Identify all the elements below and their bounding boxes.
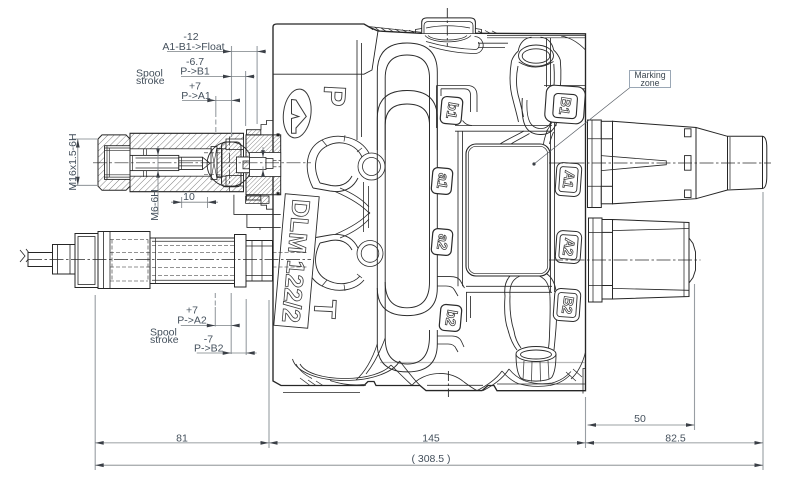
dim308.5 arrows [95, 463, 104, 467]
svg-text:stroke: stroke [136, 75, 165, 87]
row2 arrows [223, 75, 232, 79]
wire top face ledge [487, 36, 585, 38]
wire top cap on body [422, 18, 476, 33]
body staircase below collar [234, 195, 281, 230]
wire B1 recess shelf [544, 86, 585, 89]
spool drill point [203, 157, 211, 169]
inner line [729, 137, 731, 189]
svg-text:T: T [307, 299, 343, 320]
wire tulip top opening inner [522, 49, 550, 63]
dim 81/145/82.5 row [95, 442, 763, 444]
wire cap-tulip ledge [478, 43, 508, 47]
spool washer stack [211, 147, 217, 180]
port B1 [544, 85, 585, 125]
spool seat notches [226, 139, 244, 150]
port a2 [431, 228, 453, 256]
svg-text:( 308.5 ): ( 308.5 ) [411, 453, 450, 465]
wire lower U [377, 330, 437, 372]
label P [316, 85, 352, 107]
wire B1 recess wall [547, 38, 551, 87]
logo arrow glyph [292, 100, 307, 134]
wire bottom ear ticks [322, 274, 362, 291]
wire bottom edge detail [283, 369, 586, 394]
wire S-curves above bottom ear [335, 212, 370, 238]
svg-text:A1: A1 [560, 169, 579, 189]
wire channel second arch outer [377, 91, 437, 151]
end cylinder [728, 136, 763, 190]
spool sleeve end lines [144, 149, 147, 177]
collar lower pocket hatch [246, 196, 269, 203]
dim row3 [182, 99, 240, 101]
wire tulip rim under-arc [519, 62, 554, 68]
wire bottom tulip cup sides [505, 296, 557, 334]
row4 arrows (outside) [207, 324, 216, 328]
wire top chamfer marks [368, 26, 497, 33]
spool M6 bore [179, 157, 203, 169]
wire bottom-left boss circles [293, 359, 400, 381]
row1 arrows [223, 50, 232, 54]
centerline top actuator [549, 162, 771, 164]
row3 arrows (outside) [207, 99, 216, 103]
M6 arrows [156, 148, 160, 155]
wire lower shelf lines [466, 286, 552, 292]
spool stem rod [130, 155, 179, 170]
wire top ear ticks [322, 135, 362, 152]
inner vertical [683, 223, 685, 297]
port B2 [553, 288, 581, 322]
dim81 arrows [95, 441, 104, 445]
collar slot insert [243, 161, 250, 169]
wire top ear crescent [307, 136, 369, 188]
wire bottom tulip cup [505, 269, 557, 297]
svg-text:zone: zone [640, 78, 659, 88]
wire channel inner arch [385, 55, 429, 150]
spool hidden lines [204, 153, 222, 175]
wire b1 recess frame [437, 86, 468, 129]
svg-text:82.5: 82.5 [665, 432, 686, 444]
label T [307, 299, 343, 320]
wire bottom scribbles right [502, 369, 571, 386]
wire lower U to B2 steps [437, 336, 464, 352]
dim50 arrows [588, 423, 597, 427]
spool tube top wall hatch [130, 133, 244, 149]
spool flange crosshair [229, 137, 231, 192]
wire tulip right wall [551, 60, 561, 126]
dim row2 [181, 76, 255, 78]
svg-text:50: 50 [634, 413, 646, 425]
spool end cap [98, 135, 130, 190]
stem dia dim [262, 147, 264, 177]
nut [53, 245, 76, 275]
wire top ear boss inner circle [363, 158, 381, 176]
wire bottom wavy curves [391, 361, 420, 385]
port a1 [431, 167, 453, 195]
taper2 [696, 128, 728, 199]
svg-text:b1: b1 [443, 101, 462, 120]
centerline top spool [93, 162, 311, 164]
wire left recess verticals [458, 131, 463, 286]
wire b1 lower step [463, 121, 553, 132]
end collar [235, 235, 247, 288]
wire b2 right wall [467, 292, 471, 322]
wire bottom ear foot [313, 234, 358, 250]
svg-text:M6-6H: M6-6H [149, 189, 161, 221]
marking leader [534, 88, 630, 165]
collar seal squares [277, 133, 280, 136]
wire S-curve lower-left to bottom [356, 338, 385, 380]
wire bottom ear boss outer [357, 241, 383, 267]
wire top ear foot [313, 176, 358, 192]
main cone [613, 121, 697, 204]
plate [75, 234, 98, 288]
svg-text:P->A1: P->A1 [181, 90, 211, 102]
blocks [602, 220, 613, 233]
wire tulip handles [512, 37, 561, 61]
wire swoosh to cap right [426, 37, 483, 54]
collar hatched block [246, 135, 281, 195]
dim82.5 arrows [586, 441, 595, 445]
wire bottom ear crescent [307, 238, 364, 290]
bottom ext lines [95, 192, 763, 470]
svg-text:b2: b2 [442, 309, 461, 328]
thin rod [601, 156, 666, 171]
collar bore channel [250, 153, 281, 177]
wire b2 branch steps [437, 277, 464, 296]
wire bottom tulip bucket segments [523, 361, 549, 382]
cylinder [613, 220, 690, 300]
valve body outline [273, 24, 586, 391]
break marks [20, 249, 31, 262]
svg-text:M16x1.5-6H: M16x1.5-6H [67, 133, 79, 190]
wire bottom ear boss inner [361, 245, 379, 263]
port A1 [555, 162, 582, 197]
wire bottom right corner curve [571, 352, 586, 379]
flange plate [588, 120, 602, 208]
pin windows [685, 129, 692, 137]
dim row5 [197, 352, 257, 354]
spool tube bottom wall hatch [130, 176, 244, 192]
svg-text:B1: B1 [556, 96, 575, 116]
tube [150, 238, 235, 284]
wire bottom facet gray line [380, 362, 585, 364]
dim 308.5 row [95, 464, 763, 466]
wire top-left face line [273, 31, 378, 74]
logo ellipse [281, 88, 314, 140]
wire cap side tabs [416, 29, 482, 34]
wire channel left recess wall [357, 40, 362, 140]
svg-text:P->B1: P->B1 [180, 66, 210, 78]
housing [98, 232, 150, 289]
dim 50 row [588, 424, 695, 426]
ext lines top [216, 46, 257, 137]
spool ball circle [207, 142, 252, 187]
wire bottom tulip right leg [549, 334, 556, 350]
port b1 [440, 96, 463, 125]
wire tulip top opening outer [519, 45, 554, 66]
svg-text:145: 145 [422, 432, 440, 444]
M16 arrows [76, 139, 80, 148]
svg-text:10: 10 [183, 191, 195, 203]
spool flange [222, 142, 242, 187]
svg-text:P->A2: P->A2 [177, 314, 207, 326]
wire channel left legs [377, 150, 385, 344]
wire bottom trapezoid bump inner [427, 384, 483, 386]
wire bottom wave mid [412, 373, 477, 390]
flange blocks [601, 121, 612, 139]
body step above collar [261, 121, 273, 210]
collar bottom lip [247, 195, 261, 200]
end cap [763, 136, 767, 188]
spool stem in collar [250, 158, 267, 170]
wire ear-channel wall verticals [364, 182, 369, 232]
M6 leader [157, 146, 159, 215]
dim10 arrows (outside) [173, 200, 182, 204]
dim 10 [171, 197, 218, 208]
end cap [689, 238, 696, 283]
svg-text:a2: a2 [434, 233, 452, 251]
svg-text:B2: B2 [559, 295, 578, 315]
wire b1 upper step [464, 86, 477, 113]
wire bottom hatch-like marks [300, 369, 582, 386]
wire tulip left wall [510, 61, 524, 122]
stem dia arrows [261, 150, 265, 157]
spool cap thread window [105, 146, 131, 180]
svg-text:A2: A2 [560, 237, 579, 257]
spool tube outline [130, 133, 244, 191]
ext lines bottom-left [215, 293, 246, 355]
label DLM 122/2 box [274, 194, 319, 328]
port A2 [555, 230, 582, 264]
crosshair top cap [446, 8, 448, 46]
wire bottom inner line right [497, 383, 586, 385]
row5 arrows (outside) [223, 351, 232, 355]
flange plate [589, 218, 603, 302]
wire tulip legs to rect [500, 130, 554, 144]
svg-text:P->B2: P->B2 [194, 343, 224, 355]
port b2 [439, 304, 462, 332]
wire channel second arch inner [385, 104, 429, 155]
crosshair bottom [447, 371, 449, 397]
wire right recess verticals [551, 120, 555, 292]
M16 dim [72, 139, 97, 185]
wire upper U bottom [377, 288, 437, 316]
wire bottom tulip bucket rim [516, 347, 556, 362]
collar top lip [247, 130, 261, 135]
wire upper shelf lines [455, 126, 552, 132]
svg-text:P: P [316, 85, 352, 107]
wire tulip cup [522, 98, 559, 135]
spool cap thread lines [105, 146, 131, 180]
wire bottom scribbles left [296, 364, 366, 385]
svg-text:stroke: stroke [150, 334, 179, 346]
wire top ear boss outer circle [358, 153, 385, 180]
svg-text:a1: a1 [434, 172, 452, 190]
wire dome under cap [425, 36, 471, 42]
wire marking zone rounded rect [466, 144, 550, 276]
svg-text:81: 81 [176, 432, 188, 444]
wire top right corner curve [561, 36, 586, 50]
svg-text:A1-B1->Float: A1-B1->Float [162, 41, 224, 53]
wire channel right legs [430, 150, 438, 288]
dim145 arrows [269, 441, 278, 445]
centerline bottom actuator [549, 259, 701, 261]
wire channel outer arch [377, 43, 437, 150]
wire bottom tulip bucket body [516, 354, 556, 381]
wire S-curves below top ear [335, 188, 370, 214]
wire bottom tulip left leg [508, 330, 521, 350]
dim row4 [181, 325, 239, 327]
rod [28, 253, 53, 267]
centerline bottom spool [28, 259, 311, 261]
collar center slot [237, 157, 250, 173]
dim row1 [167, 51, 266, 53]
